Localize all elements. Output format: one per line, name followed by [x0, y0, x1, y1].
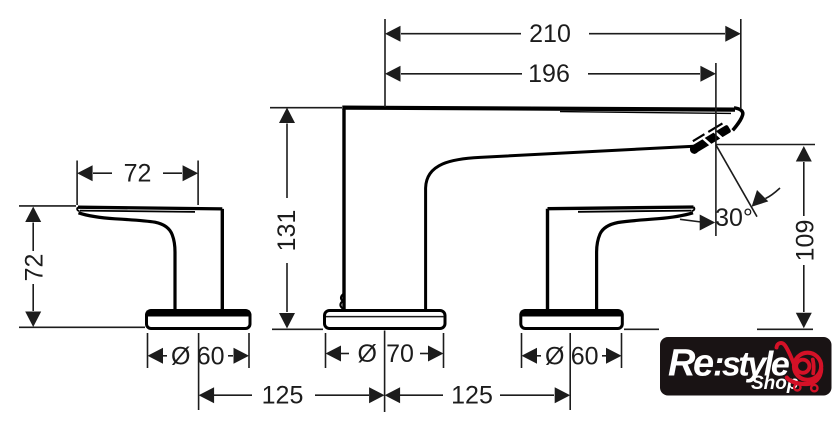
- dim line lower segment: [32, 284, 34, 311]
- dimension 125 left lines: [214, 394, 369, 396]
- svg-text:125: 125: [451, 382, 493, 410]
- flow direction line: [716, 145, 757, 217]
- svg-text:Ø: Ø: [545, 342, 564, 370]
- angle arrow at vertical: [700, 215, 716, 231]
- spout centerline: [384, 331, 386, 413]
- right handle escutcheon base: [521, 311, 623, 329]
- spout underside and riser: [426, 146, 694, 310]
- svg-text:Ø: Ø: [357, 340, 376, 368]
- dia 70 arrow right: [428, 346, 444, 362]
- dimension 125 left arrow left: [199, 387, 215, 403]
- extension line left: [384, 19, 386, 107]
- at-sign outer ring: [794, 353, 821, 380]
- dim line right segment: [315, 394, 369, 396]
- angle arrow on flow line: [752, 190, 769, 207]
- dimension 72 top arrow right: [183, 165, 199, 181]
- dim line left segment: [93, 172, 112, 174]
- spout top inner line: [560, 112, 731, 114]
- dimension 72 top arrow left: [77, 165, 93, 181]
- dimension 125 left arrow center: [369, 387, 385, 403]
- svg-text:Shop: Shop: [751, 373, 799, 394]
- right handle: [548, 207, 695, 311]
- dimension 72 top lines: [77, 161, 198, 206]
- cart wheel left: [794, 384, 800, 390]
- dim line lower segment: [286, 263, 288, 312]
- arc leader left: [680, 219, 701, 222]
- cart handle: [777, 343, 795, 366]
- lever tip cap: [692, 207, 694, 211]
- left handle: [77, 207, 222, 310]
- aerator: [687, 122, 733, 156]
- angle 30 deg lines: [680, 145, 780, 222]
- right handle centerline: [569, 333, 571, 410]
- at-sign inner ring: [796, 360, 809, 373]
- dimension 196 arrow right: [700, 66, 716, 82]
- svg-text:210: 210: [529, 20, 571, 48]
- dia 60 right arrow left: [522, 348, 538, 364]
- dimension 109 arrow top: [796, 146, 812, 162]
- dim line right stub: [228, 355, 233, 357]
- dim line left stub: [163, 355, 167, 357]
- svg-text:30°: 30°: [715, 204, 753, 232]
- spout tip curve: [733, 108, 743, 131]
- dimension 72 vertical arrow bottom: [25, 312, 41, 328]
- extension line left: [325, 333, 327, 368]
- lever tip cap: [77, 207, 79, 211]
- extension line top: [19, 205, 76, 207]
- dim line left segment: [214, 394, 252, 396]
- svg-text:72: 72: [20, 254, 48, 282]
- dimension 72 vertical lines: [19, 206, 145, 327]
- svg-text:196: 196: [528, 60, 570, 88]
- dimension 210 arrow right: [725, 26, 741, 42]
- svg-text:131: 131: [273, 210, 301, 252]
- left handle centerline: [198, 333, 200, 410]
- spout top edge: [342, 108, 735, 110]
- lever top edge: [78, 207, 222, 209]
- dia 60 right arrow right: [606, 348, 622, 364]
- lever top edge: [548, 207, 694, 209]
- dimension 125 right arrow center: [385, 387, 401, 403]
- dimension 131 lines: [270, 108, 342, 330]
- extension line right: [621, 333, 623, 368]
- dimension 210 lines: [385, 19, 741, 109]
- handle right edge: [221, 209, 224, 311]
- lever underside and stem: [79, 213, 176, 311]
- svg-text:109: 109: [792, 220, 820, 262]
- svg-text:72: 72: [124, 160, 152, 188]
- dim line left segment: [401, 73, 522, 75]
- dimension 196 arrow left: [385, 66, 401, 82]
- dim line upper segment: [32, 223, 34, 252]
- extension line right: [197, 161, 199, 206]
- set screw squiggle: [340, 294, 344, 310]
- extension line bottom: [272, 328, 323, 330]
- lever lower wedge line: [80, 211, 195, 212]
- spout body outline: [340, 108, 742, 311]
- dim line right segment: [163, 172, 182, 174]
- extension line left: [76, 161, 78, 206]
- dimension 109 lines: [624, 145, 815, 330]
- svg-text:60: 60: [197, 342, 225, 370]
- dia 60 left arrow left: [148, 348, 164, 364]
- lever underside and stem: [597, 213, 693, 311]
- extension line right: [740, 19, 742, 109]
- extension line bottom right segment: [757, 328, 813, 330]
- dim line left segment: [401, 33, 521, 35]
- extension line left: [147, 333, 149, 368]
- left handle escutcheon base: [147, 311, 251, 329]
- dim line left stub: [341, 353, 349, 355]
- spout escutcheon base: [325, 311, 446, 329]
- dim line right segment: [589, 33, 725, 35]
- extension line bottom: [19, 326, 145, 328]
- dimension 210 arrow left: [385, 26, 401, 42]
- dia 70 arrow left: [326, 346, 342, 362]
- logo background: [660, 337, 832, 396]
- dimension 131 arrow bottom: [279, 313, 295, 329]
- extension line left: [521, 333, 523, 368]
- extension line right: [715, 63, 717, 236]
- spout left edge: [342, 109, 345, 311]
- cart wheel right: [811, 385, 817, 391]
- dimension dia 60 left lines: [148, 333, 250, 368]
- dim line upper segment: [803, 162, 805, 216]
- dim line left stub: [537, 355, 541, 357]
- logo block: [660, 337, 832, 396]
- dim line right stub: [602, 355, 607, 357]
- extension line bottom left segment: [624, 328, 659, 330]
- arc leader right: [766, 188, 781, 199]
- dimension dia 60 right lines: [522, 333, 622, 368]
- extension line right: [248, 333, 250, 368]
- dia 60 left arrow right: [234, 348, 250, 364]
- svg-text:Re: Re: [668, 343, 714, 385]
- dim line right stub: [420, 353, 428, 355]
- centerlines: [199, 331, 571, 413]
- dimension 196 lines: [401, 63, 716, 236]
- dimension 125 right lines: [400, 394, 554, 396]
- svg-text:70: 70: [386, 340, 414, 368]
- dimension 131 arrow top: [279, 108, 295, 124]
- dimension 72 vertical arrow top: [25, 207, 41, 223]
- extension line top: [716, 144, 815, 146]
- dim line right segment: [588, 73, 700, 75]
- dimension dia 70 lines: [326, 333, 444, 368]
- handle left edge: [546, 209, 549, 311]
- dim line left segment: [400, 394, 443, 396]
- svg-text:60: 60: [571, 342, 599, 370]
- extension line right: [443, 333, 445, 368]
- lever lower wedge line: [578, 211, 692, 212]
- dimension 109 arrow bottom: [796, 313, 812, 329]
- dim line upper segment: [286, 124, 288, 199]
- svg-text:125: 125: [262, 382, 304, 410]
- dim line right segment: [500, 394, 554, 396]
- dim line lower segment: [803, 265, 805, 312]
- svg-text:Ø: Ø: [171, 342, 190, 370]
- at-sign inner stem: [811, 360, 816, 374]
- extension line top: [270, 107, 342, 109]
- at-sign tail: [787, 369, 821, 384]
- dimension 125 right arrow right: [555, 387, 571, 403]
